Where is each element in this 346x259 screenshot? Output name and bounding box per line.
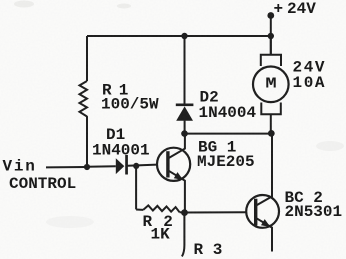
- wire Vin input lead: [46, 166, 87, 168]
- wire D1 cathode lead to BG1 base: [128, 165, 158, 166]
- wire R2 branch vertical: [135, 166, 137, 210]
- transistor BC2 base bar: [254, 199, 257, 226]
- node top rail / motor junction: [268, 33, 274, 39]
- motor M1 body: [253, 67, 289, 103]
- wire D1 anode lead: [87, 165, 116, 168]
- node mid rail / motor / BC2 collector junction: [268, 130, 275, 137]
- motor bottom lead: [270, 114, 272, 133]
- node mid rail / D2 / BG1 collector junction: [181, 130, 188, 137]
- transistor BG1 base bar: [166, 151, 169, 177]
- diode D1 arrow: [116, 158, 125, 174]
- wire left vertical upper (to R1): [86, 36, 88, 81]
- wire +24V stub: [270, 16, 272, 55]
- transistor BC2 body: [246, 195, 279, 228]
- transistor BG1 emitter arrowhead: [174, 172, 183, 180]
- node D1 cathode / R2 junction: [133, 163, 139, 169]
- motor top lead: [270, 36, 272, 55]
- transistor BG1 body: [157, 148, 190, 181]
- resistor R1: [80, 81, 88, 117]
- wire R2 left lead: [136, 209, 143, 211]
- wire mid rail (D2/BG1 collector to motor/BC2 collector): [185, 133, 272, 135]
- diode D2 bottom lead: [184, 121, 186, 134]
- wire R3 down lead: [182, 213, 185, 257]
- transistor BC2 collector: [256, 134, 272, 206]
- transistor BG1 collector: [168, 134, 185, 159]
- wire emitter node to BC2 base: [185, 211, 247, 213]
- wire top rail: [87, 35, 271, 37]
- node Vin / R1 / D1 junction: [84, 164, 90, 170]
- node +24V terminal dot: [267, 12, 274, 19]
- transistor BC2 emitter: [256, 218, 272, 252]
- motor bottom terminal block: [261, 103, 281, 115]
- resistor R2: [143, 205, 179, 212]
- transistor BG1 emitter: [168, 170, 185, 212]
- wire R2 right lead: [180, 211, 185, 213]
- node BG1 emitter / R2 / R3 / BC2 base junction: [181, 209, 188, 216]
- node top rail / D2 junction: [181, 33, 187, 39]
- transistor BC2 emitter arrowhead: [261, 219, 270, 227]
- diode D2 cathode bar: [176, 104, 194, 107]
- wire left vertical lower (R1 to Vin node): [86, 116, 88, 167]
- diode D2 arrow: [176, 106, 193, 120]
- motor top terminal block: [261, 55, 281, 66]
- diode D1 cathode bar: [125, 155, 128, 175]
- diode D2 top lead: [184, 36, 186, 104]
